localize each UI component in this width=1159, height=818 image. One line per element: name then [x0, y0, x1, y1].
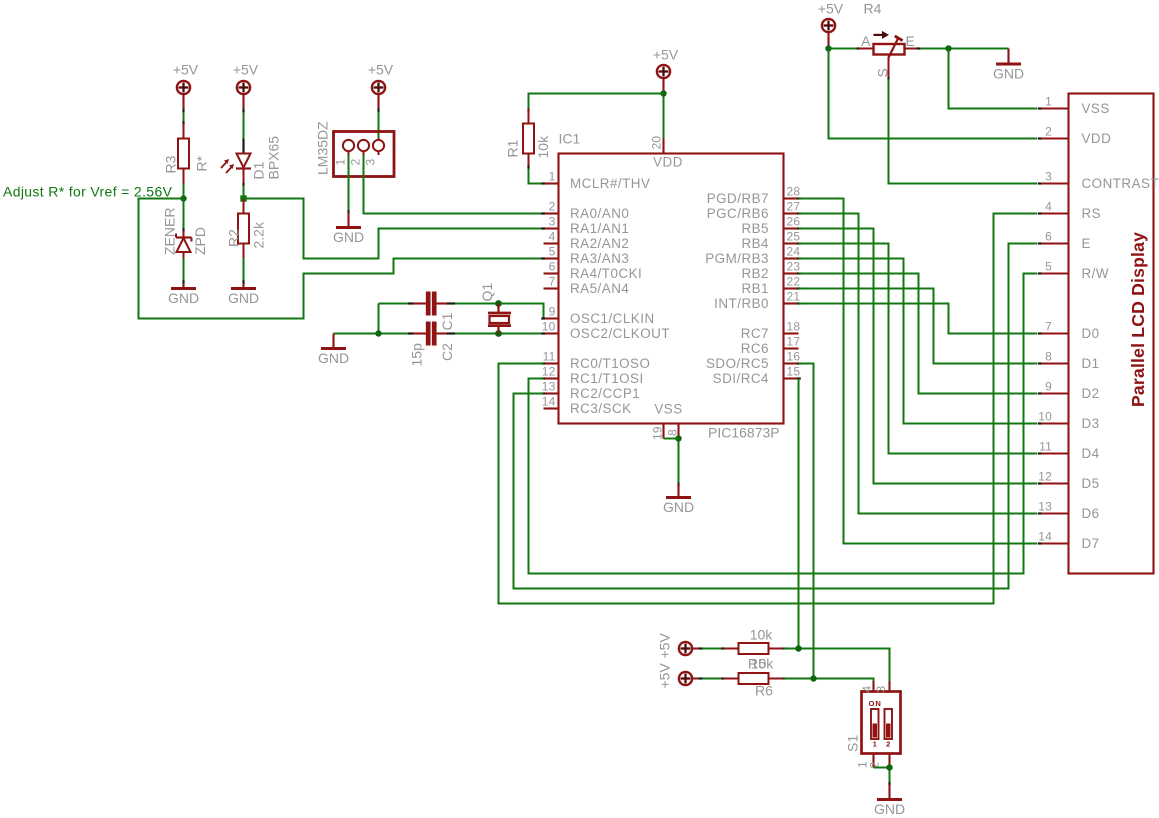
pin 4 stub (S1 top left) [872, 681, 874, 692]
svg-text:D6: D6 [1082, 506, 1100, 521]
svg-text:Parallel LCD Display: Parallel LCD Display [1128, 232, 1148, 407]
pin 2 stub (S1 bottom right) [888, 754, 890, 768]
svg-text:ON: ON [869, 699, 882, 708]
wire R4 E terminal to GND [920, 48, 1009, 50]
svg-text:1: 1 [1045, 95, 1052, 109]
svg-text:RC0/T1OSO: RC0/T1OSO [570, 356, 650, 371]
svg-text:13: 13 [542, 380, 556, 394]
svg-text:R4: R4 [864, 1, 882, 17]
svg-text:BPX65: BPX65 [266, 136, 282, 180]
node C2 gnd junction [375, 330, 381, 336]
pin 25 RB4 stub [784, 242, 799, 244]
tick LCD pin 12 [1038, 482, 1042, 484]
svg-text:R*: R* [194, 155, 210, 171]
wire net RB6-D6 [799, 214, 1038, 514]
pin 9 D2 stub (LCD) [1039, 392, 1069, 394]
pin 5 RA3/AN3 stub [544, 257, 559, 259]
svg-text:9: 9 [549, 305, 556, 319]
svg-text:GND: GND [663, 499, 694, 515]
svg-text:+5V: +5V [657, 633, 673, 659]
svg-text:5: 5 [549, 245, 556, 259]
svg-text:18: 18 [787, 320, 801, 334]
svg-text:PIC16873P: PIC16873P [708, 425, 780, 441]
svg-text:6: 6 [549, 260, 556, 274]
svg-text:2: 2 [549, 200, 556, 214]
svg-text:25: 25 [787, 230, 801, 244]
svg-text:24: 24 [787, 245, 801, 259]
pin 11 D4 stub (LCD) [1039, 452, 1069, 454]
svg-text:8: 8 [1045, 350, 1052, 364]
svg-text:GND: GND [333, 229, 364, 245]
pin 27 PGC/RB6 stub [784, 212, 799, 214]
tick C1 left [408, 302, 414, 304]
svg-text:RC1/T1OSI: RC1/T1OSI [570, 371, 644, 386]
tick zener cathode [182, 228, 184, 232]
resistor R1 10k [523, 109, 534, 169]
wire net VSS (to LCD pin 1) [949, 49, 1038, 109]
photodiode D1 BPX65 [236, 154, 251, 184]
tick LCD pin 9 [1038, 392, 1042, 394]
svg-text:PGM/RB3: PGM/RB3 [705, 251, 769, 266]
svg-text:11: 11 [543, 350, 556, 364]
svg-text:GND: GND [228, 290, 259, 306]
svg-text:CONTRAST: CONTRAST [1082, 176, 1159, 191]
pin 3 RA1/AN1 stub [544, 227, 559, 229]
svg-text:D4: D4 [1082, 446, 1100, 461]
svg-text:+5V: +5V [653, 47, 679, 63]
svg-text:RB4: RB4 [741, 236, 769, 251]
wire net OSC1 right segment to IC pin 9 [455, 304, 544, 319]
ground GND (zener) [168, 289, 199, 307]
svg-text:MCLR#/THV: MCLR#/THV [570, 176, 650, 191]
svg-text:21: 21 [787, 290, 801, 304]
tick LCD pin 6 [1038, 242, 1042, 244]
svg-text:8: 8 [666, 429, 680, 436]
pin 3 stub (S1 top right) [888, 681, 890, 692]
svg-text:VDD: VDD [653, 155, 683, 170]
power +5V supply for R5 [679, 642, 692, 655]
svg-text:4: 4 [860, 686, 874, 693]
svg-text:RS: RS [1082, 206, 1102, 221]
svg-text:17: 17 [787, 335, 801, 349]
svg-text:D3: D3 [1082, 416, 1100, 431]
svg-text:10k: 10k [751, 656, 775, 672]
svg-text:10k: 10k [750, 627, 774, 643]
pin D1 cathode lead (black) [242, 139, 244, 154]
tick R1 top [527, 108, 529, 112]
pin VSS gnd lead [677, 484, 679, 498]
power +5V supply above R4 [822, 19, 835, 32]
svg-text:5: 5 [1045, 260, 1052, 274]
svg-text:15: 15 [787, 365, 801, 379]
ground GND (IC1 VSS) [663, 498, 694, 516]
wire net CONTRAST (R4 wiper to LCD) [889, 79, 1038, 184]
wire R6 to S1 pin 4 [784, 679, 874, 682]
svg-text:PGD/RB7: PGD/RB7 [707, 191, 769, 206]
pin 9 OSC1/CLKIN stub [544, 317, 559, 319]
tick C1 right [447, 302, 455, 304]
tick LCD pin 14 [1038, 542, 1042, 544]
pin LM35 gnd lead [347, 212, 349, 228]
pin 8 D1 stub (LCD) [1039, 362, 1069, 364]
pin 2 VDD stub (LCD) [1039, 137, 1069, 139]
pin 4 RS stub (LCD) [1039, 212, 1069, 214]
capacitor C2 15p [428, 322, 434, 346]
svg-text:RA5/AN4: RA5/AN4 [570, 281, 629, 296]
pin OSC GND lead [332, 334, 334, 349]
svg-text:E: E [906, 33, 915, 49]
wire net LM35OUT to IC pin 2 RA0 [364, 155, 542, 214]
crystal Q1 [488, 304, 511, 334]
node D1/R2 junction [240, 195, 246, 201]
svg-text:RC6: RC6 [741, 341, 769, 356]
svg-text:R3: R3 [163, 155, 179, 173]
wire net RB1-D1 [799, 289, 1038, 364]
tick zener gnd [182, 280, 184, 284]
pin 18 RC7 stub [784, 332, 799, 334]
ground GND (crystal caps) [318, 349, 349, 367]
wire net E (IC pin 13 RC2 to LCD E) [514, 244, 1038, 589]
wire +5V to R5 [692, 647, 709, 649]
tick LCD pin 4 [1038, 212, 1042, 214]
svg-text:+5V: +5V [233, 62, 259, 78]
svg-text:+5V: +5V [368, 62, 394, 78]
node crystal bottom junction [495, 330, 502, 337]
wire +5V to R3 [182, 94, 184, 109]
wire VSS pins joined [664, 439, 679, 484]
svg-text:SDI/RC4: SDI/RC4 [713, 371, 769, 386]
ground GND (LM35) [333, 228, 364, 246]
node VREF junction [180, 195, 186, 201]
svg-text:RB5: RB5 [741, 221, 769, 236]
pin 6 RA4/T0CKI stub [544, 272, 559, 274]
svg-text:RA3/AN3: RA3/AN3 [570, 251, 629, 266]
tick R1 bottom [527, 165, 529, 169]
svg-text:E: E [1082, 236, 1091, 251]
tick R6 right [783, 677, 787, 679]
wire net RB5-D5 [799, 229, 1038, 484]
svg-text:+5V: +5V [173, 62, 199, 78]
pin C1 left lead [413, 302, 427, 304]
svg-text:Q1: Q1 [479, 283, 495, 302]
svg-text:VSS: VSS [1082, 101, 1110, 116]
wire net VREF zener loop to IC pin 5 RA3 [139, 199, 542, 319]
svg-text:GND: GND [993, 66, 1024, 82]
svg-text:4: 4 [549, 230, 556, 244]
power +5V supply above LM35DZ [372, 81, 385, 94]
pin 1 MCLR#/THV stub [544, 182, 559, 184]
power +5V supply above D1 [237, 81, 250, 94]
tick +5V stem R6 [699, 677, 703, 679]
tick R3 top [182, 121, 184, 125]
pin R2 gnd lead [242, 284, 244, 289]
tick C2 right [447, 332, 455, 334]
svg-text:S: S [875, 68, 891, 77]
wire D1 anode to node [242, 183, 244, 187]
pin 8 VSS stub [677, 424, 679, 439]
pin +5V stem to junction [662, 78, 664, 94]
tick LCD pin 3 [1038, 182, 1042, 184]
svg-text:R/W: R/W [1082, 266, 1110, 281]
connector LM35DZ [334, 132, 395, 177]
svg-text:2.2k: 2.2k [251, 221, 267, 248]
pin 23 RB2 stub [784, 272, 799, 274]
node S1 gnd junction [886, 764, 892, 770]
svg-text:27: 27 [787, 200, 801, 214]
wire net RB3-D3 [799, 259, 1038, 424]
tick LCD pin 1 [1038, 107, 1042, 109]
tick LCD pin 7 [1038, 332, 1042, 334]
svg-text:1: 1 [334, 159, 348, 166]
tick S1 gnd [888, 782, 890, 786]
resistor R5 10k [724, 643, 784, 654]
svg-text:VDD: VDD [1082, 131, 1112, 146]
wire +5V junction to R4 A terminal [829, 48, 858, 50]
svg-text:+5V: +5V [657, 663, 673, 689]
wire R1 to IC pin 1 MCLR [529, 169, 542, 184]
power +5V supply above R3 [177, 81, 190, 94]
wire LM35 pin1 to GND [348, 155, 350, 212]
svg-text:RA0/AN0: RA0/AN0 [570, 206, 629, 221]
ground GND (R2) [228, 289, 259, 307]
svg-text:D5: D5 [1082, 476, 1100, 491]
resistor R6 10k [724, 673, 784, 684]
pin 3 CONTRAST stub (LCD) [1039, 182, 1069, 184]
pin 20 VDD stub [662, 139, 664, 154]
svg-text:C1: C1 [439, 312, 455, 330]
pin 1 VSS stub (LCD) [1039, 107, 1069, 109]
svg-text:IC1: IC1 [559, 131, 581, 147]
power +5V supply for R6 [679, 672, 692, 685]
svg-text:D0: D0 [1082, 326, 1100, 341]
wire S1 bottom pins to GND [874, 768, 890, 785]
pin 28 PGD/RB7 stub [784, 197, 799, 199]
pin 14 D7 stub (LCD) [1039, 542, 1069, 544]
svg-text:23: 23 [787, 260, 801, 274]
pin 10 OSC2/CLKOUT stub [544, 332, 559, 334]
pin 13 RC2/CCP1 stub [544, 392, 559, 394]
svg-text:OSC2/CLKOUT: OSC2/CLKOUT [570, 326, 670, 341]
wire net RB0-D0 [799, 304, 1038, 334]
pin 14 RC3/SCK stub [544, 407, 559, 409]
svg-text:6: 6 [1045, 230, 1052, 244]
tick +5V stem R5 [699, 647, 703, 649]
svg-text:+5V: +5V [818, 1, 844, 17]
pin 6 E stub (LCD) [1039, 242, 1069, 244]
pin zener gnd lead [182, 284, 184, 289]
svg-text:28: 28 [787, 185, 801, 199]
svg-text:13: 13 [1038, 500, 1052, 514]
wire net RB4-D4 [799, 244, 1038, 454]
tick R5 left [721, 647, 725, 649]
pin 4 RA2/AN2 stub [544, 242, 559, 244]
zener diode ZPD (ZENER) [176, 231, 192, 259]
svg-text:3: 3 [364, 159, 378, 166]
svg-text:RB2: RB2 [741, 266, 769, 281]
tick R4 wiper [887, 77, 889, 81]
tick LCD pin 8 [1038, 362, 1042, 364]
node VSS junction [675, 435, 681, 441]
svg-text:3: 3 [549, 215, 556, 229]
wire +5V to D1 [242, 94, 244, 109]
svg-text:OSC1/CLKIN: OSC1/CLKIN [570, 311, 655, 326]
wire net SW2 (IC pin 16 SDO/RC5 down) [799, 364, 814, 679]
wire net RB7-D7 [799, 199, 1038, 544]
svg-text:GND: GND [874, 801, 905, 817]
potentiometer R4 body [859, 36, 919, 79]
svg-text:9: 9 [1045, 380, 1052, 394]
tick LCD pin 11 [1038, 452, 1042, 454]
pin 11 RC0/T1OSO stub [544, 362, 559, 364]
ground GND (S1) [874, 800, 905, 818]
tick LM35 pin3 [377, 108, 379, 112]
svg-text:D7: D7 [1082, 536, 1100, 551]
pin 2 RA0/AN0 stub [544, 212, 559, 214]
pin 21 INT/RB0 stub [784, 302, 799, 304]
resistor R2 2.2k [238, 199, 249, 259]
arrow R4 adjust [874, 31, 890, 39]
node +5V junction [660, 90, 666, 96]
tick wire joints at IC right stubs [797, 197, 801, 199]
tick LCD pin 5 [1038, 272, 1042, 274]
tick +5V stem D1 [242, 109, 244, 113]
wire +5V to LM35 pin 3 [377, 94, 379, 109]
pin 26 RB5 stub [784, 227, 799, 229]
tick R6 left [721, 677, 725, 679]
wire R2 to GND [243, 259, 245, 284]
svg-text:4: 4 [1045, 200, 1052, 214]
svg-text:14: 14 [1038, 530, 1052, 544]
wire +5V to R6 [692, 677, 709, 679]
svg-text:A: A [861, 33, 871, 49]
svg-text:C2: C2 [439, 343, 455, 361]
wire net R/W (IC pin 12 RC1 to LCD R/W) [529, 274, 1038, 574]
pin C1 right lead [436, 302, 448, 304]
svg-text:14: 14 [542, 395, 556, 409]
pin 12 D5 stub (LCD) [1039, 482, 1069, 484]
tick LM35 gnd [347, 210, 349, 214]
svg-text:SDO/RC5: SDO/RC5 [706, 356, 769, 371]
svg-text:12: 12 [1038, 470, 1052, 484]
svg-text:2: 2 [1045, 125, 1052, 139]
node R4 left junction [825, 45, 831, 51]
pin R4 gnd lead [1007, 49, 1009, 65]
svg-text:10k: 10k [535, 135, 551, 159]
svg-text:PGC/RB6: PGC/RB6 [707, 206, 769, 221]
svg-text:RC7: RC7 [741, 326, 769, 341]
pin 22 RB1 stub [784, 287, 799, 289]
LCD module Parallel LCD Display body [1069, 94, 1154, 574]
pin 1 stub (S1 bottom left) [872, 754, 874, 768]
tick C2 left [408, 332, 414, 334]
tick VSS gnd [677, 483, 679, 487]
pin 24 PGM/RB3 stub [784, 257, 799, 259]
wire net SW1 (IC pin 15 SDI/RC4 down) [798, 379, 800, 649]
svg-text:RC3/SCK: RC3/SCK [570, 401, 632, 416]
pin 12 RC1/T1OSI stub [544, 377, 559, 379]
svg-text:RA4/T0CKI: RA4/T0CKI [570, 266, 642, 281]
pin 16 SDO/RC5 stub [784, 362, 799, 364]
tick R2 gnd [242, 280, 244, 284]
wire net PHOTO D1 to IC pin 3 RA1 [244, 199, 542, 259]
wire crystal branch vertical [378, 304, 380, 334]
svg-text:R1: R1 [505, 139, 521, 157]
svg-text:15p: 15p [409, 343, 425, 367]
svg-text:22: 22 [787, 275, 801, 289]
pin S1 gnd lead [888, 785, 890, 800]
svg-text:16: 16 [787, 350, 801, 364]
tick wire joints at IC left stubs [541, 182, 545, 184]
svg-text:RA2/AN2: RA2/AN2 [570, 236, 629, 251]
tick LCD pin 2 [1038, 137, 1042, 139]
tick R4 A [857, 47, 861, 49]
op-amp IC1 PIC16873P body [559, 154, 784, 424]
capacitor C1 15p [428, 292, 434, 316]
svg-text:D2: D2 [1082, 386, 1100, 401]
svg-text:LM35DZ: LM35DZ [315, 121, 331, 175]
wire +5V junction down to IC pin 20 VDD [663, 94, 665, 139]
node R5/RC4 junction [795, 645, 801, 651]
svg-text:3: 3 [874, 686, 888, 693]
svg-text:ZPD: ZPD [192, 227, 208, 255]
wire +5V junction to R1 [529, 94, 664, 109]
svg-text:R6: R6 [755, 683, 773, 699]
pin 15 SDI/RC4 stub [784, 377, 799, 379]
svg-text:19: 19 [651, 426, 665, 440]
svg-text:7: 7 [549, 275, 556, 289]
wire R3 to node VREF [183, 184, 185, 199]
wire net RS (IC pin 11 RC0 to LCD RS) [499, 214, 1038, 604]
svg-text:S1: S1 [845, 735, 861, 752]
switch S1 DIP body [862, 692, 901, 754]
svg-text:RC2/CCP1: RC2/CCP1 [570, 386, 640, 401]
wire net OSCGND right segment to IC pin 10 [455, 333, 544, 335]
wire net RB2-D2 [799, 274, 1038, 394]
tick +5V stem R3 [182, 109, 184, 113]
svg-text:12: 12 [542, 365, 556, 379]
tick LCD pin 10 [1038, 422, 1042, 424]
pin 19 VSS stub [662, 424, 664, 439]
tick LCD pin 13 [1038, 512, 1042, 514]
pin C2 left lead [413, 332, 427, 334]
svg-text:VSS: VSS [654, 402, 682, 417]
svg-text:10: 10 [1038, 410, 1052, 424]
svg-text:ZENER: ZENER [162, 208, 178, 255]
svg-text:26: 26 [787, 215, 801, 229]
power +5V supply above IC1 [657, 65, 670, 78]
svg-text:Adjust R* for Vref = 2.56V: Adjust R* for Vref = 2.56V [3, 184, 173, 200]
node crystal top junction [495, 300, 502, 307]
pin 7 RA5/AN4 stub [544, 287, 559, 289]
svg-text:D1: D1 [251, 161, 267, 179]
svg-text:GND: GND [168, 290, 199, 306]
wire zener to GND [183, 259, 185, 284]
tick R5 right [783, 647, 787, 649]
svg-text:2: 2 [886, 740, 890, 749]
pin 13 D6 stub (LCD) [1039, 512, 1069, 514]
svg-text:RA1/AN1: RA1/AN1 [570, 221, 629, 236]
wire net OSCGND left segment [334, 333, 410, 335]
pin +5V stem to R4 row [827, 32, 829, 49]
svg-text:2: 2 [349, 159, 363, 166]
svg-text:R2: R2 [226, 229, 242, 247]
svg-text:20: 20 [650, 136, 664, 150]
light arrows into D1 [221, 159, 234, 173]
pin 10 D3 stub (LCD) [1039, 422, 1069, 424]
wire node VREF to zener [183, 199, 185, 231]
wire net VDD (to LCD pin 2) [829, 49, 1038, 139]
pin 7 D0 stub (LCD) [1039, 332, 1069, 334]
